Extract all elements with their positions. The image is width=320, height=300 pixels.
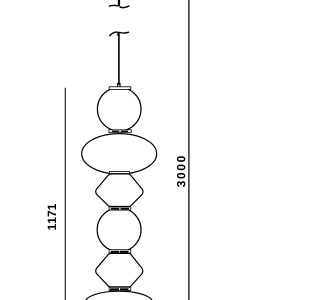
connector band 4 (diamond1-sphere2, dark) xyxy=(109,207,131,210)
top cap xyxy=(109,87,131,90)
dimension line 1171 (left) xyxy=(64,88,66,300)
diamond 1 (bicone) xyxy=(96,174,143,207)
connector band 6 (diamond2-ellipse2, dark) xyxy=(109,287,131,290)
canopy A left wing xyxy=(110,4,118,7)
connector band 3 (ellipse1-diamond1, white) xyxy=(109,172,129,174)
diamond 2 (bicone) xyxy=(96,253,143,287)
ellipse 1 (large disc) xyxy=(82,134,157,174)
nub notch xyxy=(118,85,119,87)
canopy B stem xyxy=(117,32,119,36)
connector band 5 (sphere2-diamond2, dark) xyxy=(109,250,131,253)
sphere 1 xyxy=(97,87,141,131)
canopy A stem xyxy=(118,0,120,6)
dimension label 1171 xyxy=(48,204,56,230)
ellipse 2 (bottom disc, clipped) xyxy=(85,291,152,300)
sphere 2 xyxy=(97,208,141,252)
canopy A right wing xyxy=(120,6,129,7)
connector band 1 (sphere1-ellipse1) xyxy=(109,130,131,133)
canopy A (ceiling mount, clipped at top) xyxy=(110,0,129,8)
cable nub xyxy=(117,83,121,87)
suspension cable xyxy=(118,35,120,83)
canopy B left wing xyxy=(110,32,118,36)
dimension line 3000 (right) xyxy=(188,0,190,300)
canopy B (cable gripper) xyxy=(110,32,129,36)
dimension label 3000 xyxy=(177,156,185,187)
canopy B right wing xyxy=(120,31,129,34)
